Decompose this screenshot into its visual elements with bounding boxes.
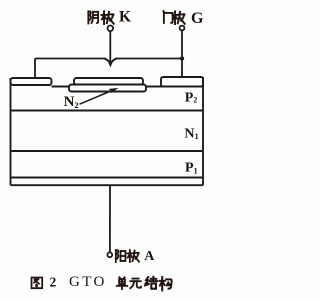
cathode strap wire <box>35 58 106 60</box>
terminal K circle <box>108 26 114 32</box>
svg-text:K: K <box>119 9 131 26</box>
P1/anode-metal line <box>11 177 204 179</box>
svg-text:2: 2 <box>50 275 57 290</box>
body right border <box>202 77 204 185</box>
G lead wire <box>181 31 183 78</box>
body bottom edge <box>11 184 204 186</box>
left ledge (N2 surface) <box>52 86 70 88</box>
caption 图 <box>32 278 43 289</box>
label gate G (门极G) <box>163 11 172 23</box>
label anode A (阳极A) <box>116 250 126 262</box>
center cathode metal cap <box>74 78 143 85</box>
terminal A circle <box>107 252 112 257</box>
label cathode K (阴极K) <box>88 11 98 23</box>
K lead joint dip <box>104 58 117 65</box>
latin texts <box>50 9 205 291</box>
N1/P1 junction line <box>11 150 204 152</box>
svg-text:N: N <box>184 127 194 142</box>
terminal G circle <box>180 26 185 31</box>
strap-gate junction dot <box>180 56 184 60</box>
svg-text:A: A <box>144 249 155 264</box>
left cathode metal cap <box>11 78 52 85</box>
center N2 mesa pedestal <box>69 85 146 92</box>
svg-text:G: G <box>191 10 204 27</box>
svg-text:1: 1 <box>194 166 198 175</box>
N2 pointer arrow <box>80 88 119 104</box>
gate metal contact <box>161 77 203 87</box>
svg-text:N: N <box>64 94 75 110</box>
svg-text:GTO: GTO <box>69 274 107 290</box>
anode lead wire <box>109 185 111 252</box>
svg-text:2: 2 <box>74 100 78 110</box>
K lead wire <box>109 31 111 63</box>
caption 构 <box>160 277 172 290</box>
svg-text:1: 1 <box>195 132 199 141</box>
right P2 surface line <box>146 86 203 88</box>
P2/N1 junction line <box>11 110 204 112</box>
caption 单 <box>117 277 127 289</box>
body left border <box>10 78 12 185</box>
caption 结 <box>145 277 157 289</box>
svg-text:2: 2 <box>193 96 197 105</box>
strap left leg wire <box>34 59 36 79</box>
caption 元 <box>130 279 141 289</box>
